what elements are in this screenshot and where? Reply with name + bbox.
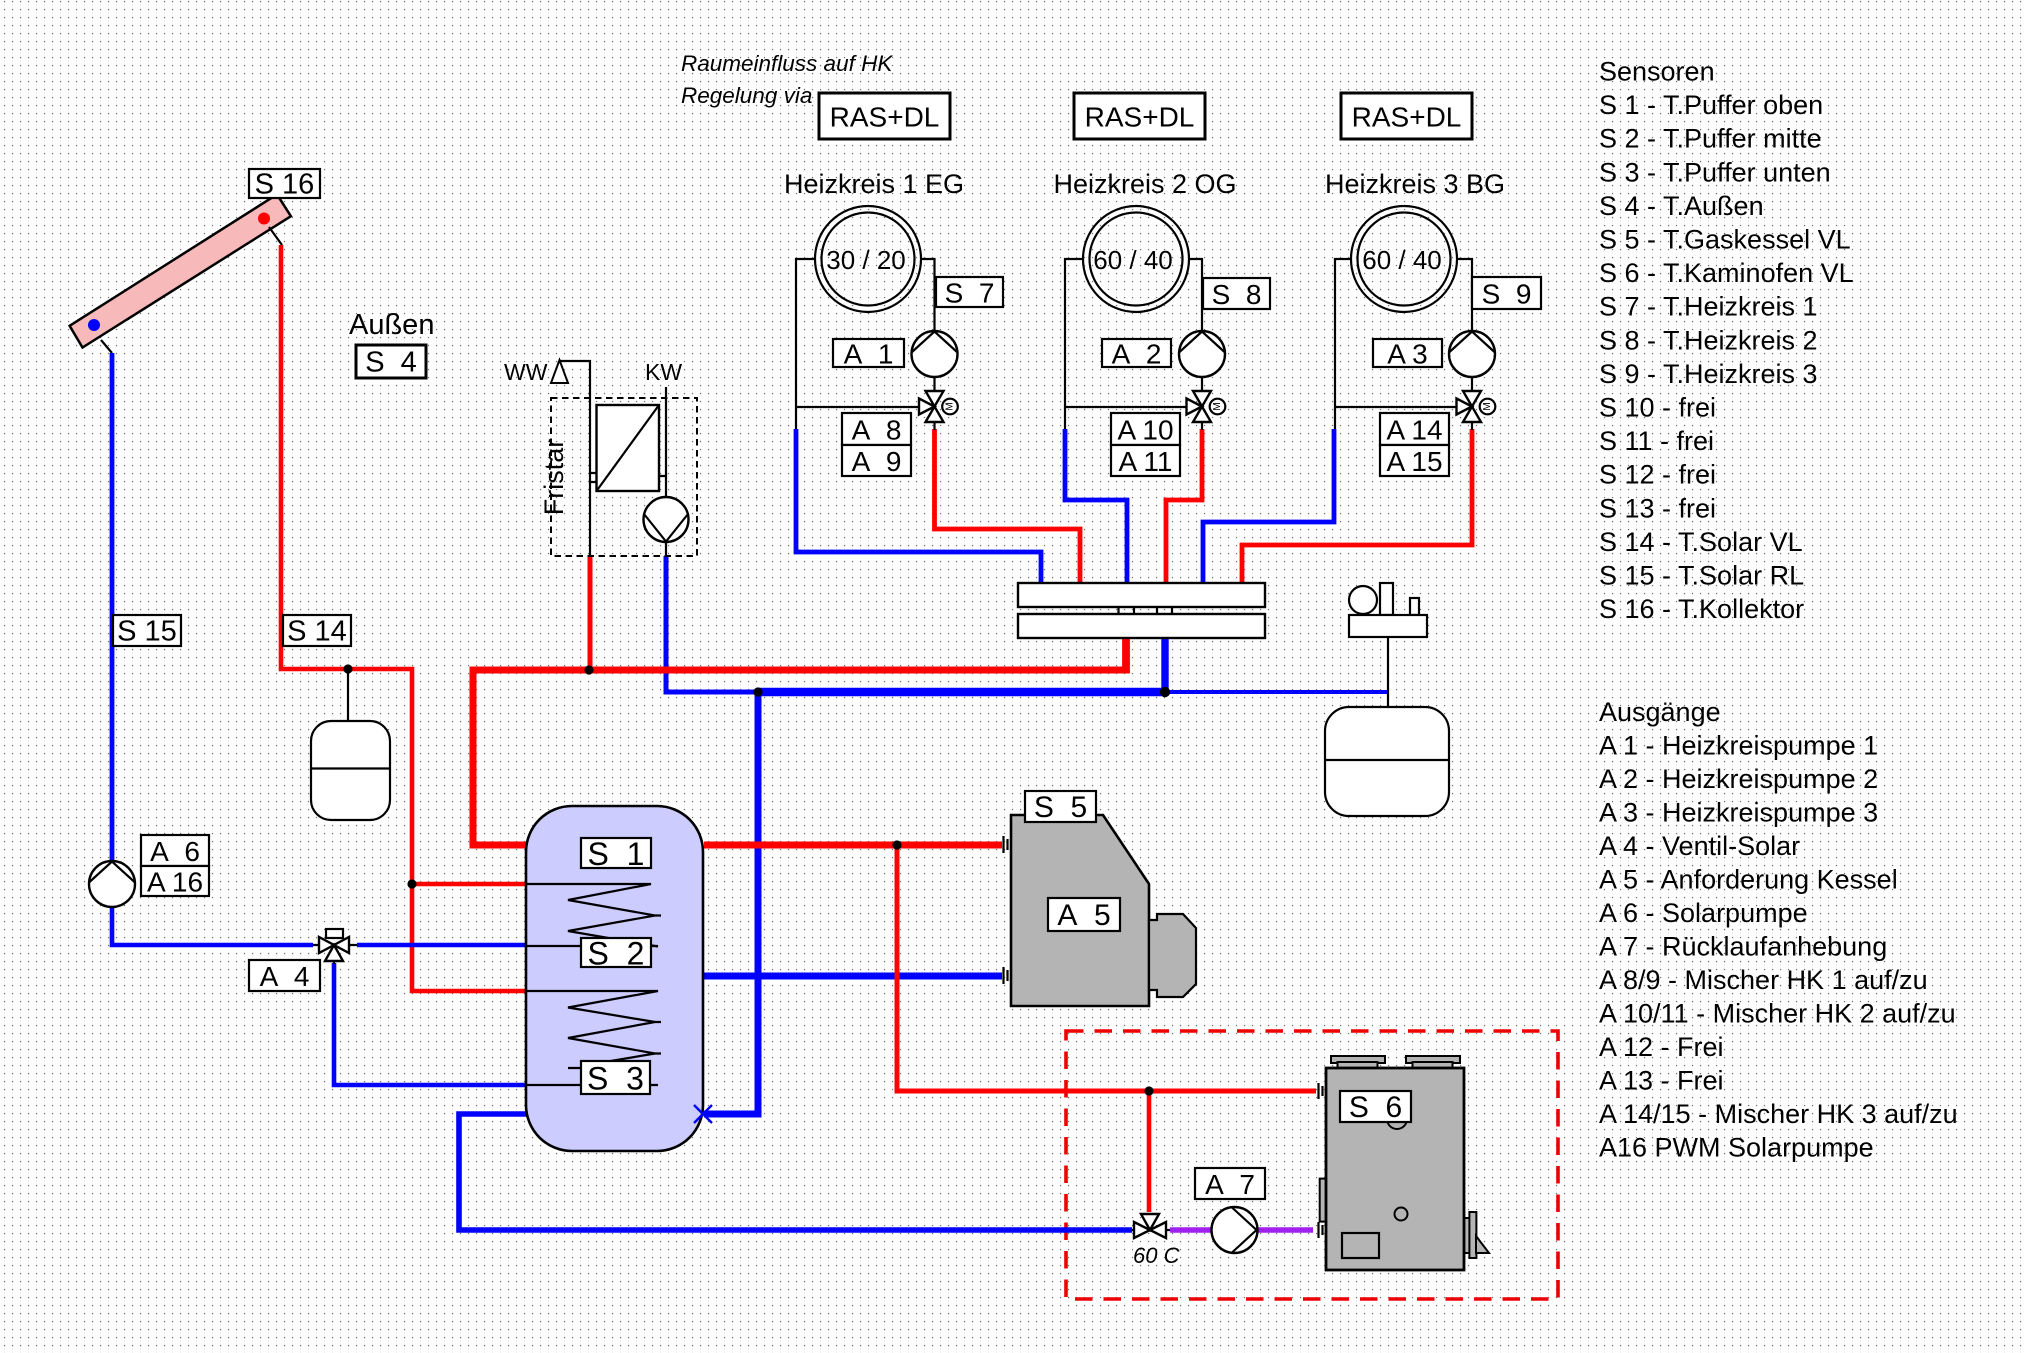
svg-text:Heizkreis 1 EG: Heizkreis 1 EG [784, 169, 964, 199]
svg-text:S 6: S 6 [1349, 1091, 1402, 1124]
svg-text:S 8: S 8 [1212, 279, 1262, 310]
svg-text:S 11 - frei: S 11 - frei [1599, 426, 1714, 456]
label box S15 [113, 615, 181, 648]
svg-text:Außen: Außen [349, 309, 434, 341]
svg-text:Ausgänge: Ausgänge [1599, 697, 1721, 727]
wire: Fristar WW red drop [588, 556, 593, 670]
label box S6 [1340, 1091, 1411, 1124]
gas boiler (Kessel) [1011, 815, 1196, 1006]
label box S14 [283, 615, 351, 648]
wire: Heizkreis 1 RL blue [796, 429, 1041, 586]
svg-text:M: M [945, 402, 956, 410]
pump Fristar [644, 497, 689, 542]
svg-text:A 10/11 - Mischer HK 2 auf/zu: A 10/11 - Mischer HK 2 auf/zu [1599, 999, 1956, 1029]
wire: Heizkreis 1 VL red [935, 429, 1081, 586]
junction dot Fristar red [584, 665, 593, 674]
Heizkreis 2 radiator [1083, 206, 1189, 312]
svg-text:A 5 - Anforderung Kessel: A 5 - Anforderung Kessel [1599, 865, 1898, 895]
svg-text:A 3: A 3 [1387, 339, 1427, 370]
svg-text:60 / 40: 60 / 40 [1093, 245, 1173, 275]
mixing valve Heizkreis (3-way with M) at x=934.5 [919, 391, 958, 422]
svg-text:A 1 - Heizkreispumpe 1: A 1 - Heizkreispumpe 1 [1599, 731, 1878, 761]
wire: Heizkreis 2 VL red [1166, 429, 1202, 586]
svg-text:M: M [1212, 402, 1223, 410]
Kaminofen dashed red enclosure [1066, 1031, 1558, 1299]
wire: boiler VL thick red [704, 842, 1002, 849]
label box S8 [1203, 278, 1270, 310]
svg-text:S 4 - T.Außen: S 4 - T.Außen [1599, 191, 1764, 221]
Heizkreis 1 radiator [815, 206, 921, 312]
pump A2 Heizkreispumpe 2 [1179, 331, 1225, 377]
label box A9 [842, 445, 911, 477]
svg-text:A 4 - Ventil-Solar: A 4 - Ventil-Solar [1599, 831, 1800, 861]
label box A1 [833, 339, 904, 370]
wire: safety group to expansion vessel [1387, 637, 1389, 707]
wire: Heizkreis 2 RL blue [1065, 429, 1127, 586]
svg-text:A 10: A 10 [1117, 415, 1173, 446]
svg-text:A 1: A 1 [844, 339, 894, 370]
mixing valve Heizkreis (3-way with M) at x=1472 [1457, 391, 1496, 422]
svg-text:S 2: S 2 [588, 936, 645, 972]
wire: collector VL stub [269, 227, 282, 245]
wire: Heizkreis 3 VL red [1242, 429, 1472, 586]
wire: solar VL (S14) red [281, 245, 527, 991]
wire: tank S3 port line [527, 1068, 658, 1085]
svg-text:S 6 - T.Kaminofen VL: S 6 - T.Kaminofen VL [1599, 258, 1854, 288]
svg-text:RAS+DL: RAS+DL [830, 102, 940, 133]
junction dot blue main [753, 687, 762, 696]
mixing valve Heizkreis (3-way with M) at x=1202 [1187, 391, 1226, 422]
svg-text:A 4: A 4 [260, 961, 310, 992]
solar collector [70, 194, 291, 347]
WW vent symbol [551, 360, 568, 383]
svg-text:A 11: A 11 [1119, 446, 1173, 477]
svg-text:S 16 - T.Kollektor: S 16 - T.Kollektor [1599, 594, 1804, 624]
blue x mark tank port [694, 1105, 712, 1123]
valve A4 Ventil-Solar [313, 929, 357, 964]
manifold (Verteiler) upper bar [1018, 583, 1265, 607]
label box S7 [936, 277, 1003, 309]
svg-text:A 7: A 7 [1205, 1169, 1255, 1200]
svg-text:30 / 20: 30 / 20 [826, 245, 906, 275]
label box A16 [141, 866, 209, 898]
svg-text:S 16: S 16 [255, 169, 315, 201]
label box A3 [1373, 339, 1442, 370]
label box A5 [1048, 898, 1120, 932]
label box S1 [581, 836, 651, 872]
wire: HK2 black right [1188, 259, 1202, 430]
flange boiler RL [1004, 967, 1008, 984]
svg-text:A 7 - Rücklaufanhebung: A 7 - Rücklaufanhebung [1599, 932, 1887, 962]
svg-text:A 14: A 14 [1386, 415, 1442, 446]
wire: tank S2 port line [527, 945, 658, 947]
svg-text:S 10 - frei: S 10 - frei [1599, 393, 1716, 423]
label box A7 [1195, 1168, 1265, 1200]
wire: solar RL (S15) blue [110, 353, 115, 862]
wire: WW line [560, 361, 598, 556]
wire: valve A4 down to tank S3 port [334, 963, 527, 1085]
safety group (manometer + valve) [1349, 583, 1427, 637]
svg-text:S 8 - T.Heizkreis 2: S 8 - T.Heizkreis 2 [1599, 325, 1818, 355]
junction dot solar vessel [343, 664, 352, 673]
junction dot solar coil branch [407, 879, 416, 888]
label box S2 [581, 936, 651, 972]
svg-text:S 4: S 4 [365, 347, 417, 379]
svg-text:RAS+DL: RAS+DL [1085, 102, 1195, 133]
svg-text:Raumeinfluss auf HK: Raumeinfluss auf HK [681, 51, 893, 76]
junction dot Kaminofen red [1144, 1086, 1153, 1095]
svg-text:A 8/9 - Mischer HK 1 auf/zu: A 8/9 - Mischer HK 1 auf/zu [1599, 965, 1928, 995]
Heizkreis 3 radiator [1351, 206, 1457, 312]
svg-text:S 7: S 7 [945, 278, 995, 309]
svg-text:Regelung via: Regelung via [681, 83, 812, 108]
svg-text:A 14/15 - Mischer HK 3 auf/zu: A 14/15 - Mischer HK 3 auf/zu [1599, 1099, 1958, 1129]
manifold lower bar [1018, 614, 1265, 638]
svg-text:A 12 - Frei: A 12 - Frei [1599, 1032, 1724, 1062]
svg-text:A 2 - Heizkreispumpe 2: A 2 - Heizkreispumpe 2 [1599, 764, 1878, 794]
wire: Heizkreis 3 RL blue [1203, 429, 1334, 586]
label box A2 [1102, 339, 1171, 370]
svg-text:A 9: A 9 [852, 446, 902, 477]
svg-text:Heizkreis 3 BG: Heizkreis 3 BG [1325, 169, 1505, 199]
svg-text:Fristar: Fristar [539, 439, 569, 516]
svg-text:S 3 - T.Puffer unten: S 3 - T.Puffer unten [1599, 157, 1831, 187]
wire: Kessel VL thick red (tank top to manifold) [473, 670, 1126, 845]
svg-text:S 12 - frei: S 12 - frei [1599, 460, 1716, 490]
svg-text:A 5: A 5 [1057, 899, 1110, 932]
wood boiler Kaminofen [1320, 1056, 1489, 1270]
svg-text:A 6: A 6 [150, 836, 200, 867]
label box S9 [1472, 277, 1541, 310]
svg-text:S 15: S 15 [117, 616, 177, 648]
label box S16 [249, 169, 320, 201]
label box RAS3 [1341, 93, 1472, 139]
label box RAS2 [1074, 93, 1205, 139]
wire: Fristar KW blue drop [666, 556, 758, 692]
coil 2 (lower heat exchanger) [527, 991, 661, 1066]
pump A3 Heizkreispumpe 3 [1449, 331, 1495, 377]
svg-text:S 14 - T.Solar VL: S 14 - T.Solar VL [1599, 527, 1803, 557]
label box A10 [1111, 413, 1180, 446]
svg-text:S 9 - T.Heizkreis 3: S 9 - T.Heizkreis 3 [1599, 359, 1818, 389]
wire: purple pump A7 to Kaminofen [1258, 1227, 1313, 1233]
svg-text:S 1 - T.Puffer oben: S 1 - T.Puffer oben [1599, 90, 1823, 120]
svg-text:60 C: 60 C [1133, 1243, 1180, 1268]
junction dot blue manifold [1160, 687, 1170, 697]
wire: HK1 black left [796, 259, 919, 429]
svg-text:S 13 - frei: S 13 - frei [1599, 493, 1716, 523]
label box S3 [581, 1061, 650, 1097]
wire: blue manifold drop [1161, 634, 1168, 692]
buffer tank (Puffer) [526, 806, 703, 1151]
output list [1599, 697, 1958, 1163]
svg-text:M: M [1482, 402, 1493, 410]
label box RAS1 [819, 93, 950, 139]
wire: thin blue to expansion vessel line [1165, 690, 1388, 694]
pump A1 Heizkreispumpe 1 [912, 331, 958, 377]
svg-text:A 13 - Frei: A 13 - Frei [1599, 1066, 1724, 1096]
label box S4 [356, 345, 426, 379]
svg-text:KW: KW [645, 359, 682, 385]
heat exchanger Fristar [597, 405, 660, 491]
flange boiler VL [1004, 836, 1008, 853]
svg-text:A 2: A 2 [1112, 339, 1162, 370]
svg-text:A 6 - Solarpumpe: A 6 - Solarpumpe [1599, 898, 1808, 928]
svg-text:S 15 - T.Solar RL: S 15 - T.Solar RL [1599, 561, 1804, 591]
wire: expansion vessel tap (solar) [347, 669, 349, 721]
wire: KW line [659, 387, 666, 556]
sensor list [1599, 57, 1854, 625]
wire: purple valve to pump A7 [1170, 1227, 1211, 1233]
wire: valve A4 to tank S2 port [357, 943, 527, 948]
label box A4 [249, 960, 320, 992]
wire: HK3 black right [1456, 259, 1472, 430]
svg-text:Sensoren: Sensoren [1599, 57, 1715, 87]
junction dot boiler red [892, 840, 901, 849]
wire: collector RL stub [101, 340, 112, 353]
svg-text:RAS+DL: RAS+DL [1352, 102, 1462, 133]
wire: red branch down to 60C valve [1147, 1091, 1152, 1212]
main expansion vessel [1325, 707, 1449, 816]
svg-text:A 16: A 16 [147, 867, 203, 898]
solar expansion vessel [311, 721, 390, 820]
label box A11 [1111, 445, 1180, 477]
label box A14 [1380, 413, 1449, 446]
flange Kaminofen RL [1319, 1222, 1323, 1238]
wire: pump A6 to valve A4 [112, 907, 313, 946]
wire: solar VL branch to upper coil [412, 882, 527, 887]
wire: thick blue main return (Fristar junction to manifold) [758, 688, 1165, 696]
svg-text:Heizkreis 2 OG: Heizkreis 2 OG [1053, 169, 1236, 199]
svg-text:S 3: S 3 [587, 1061, 644, 1097]
svg-text:S 2 - T.Puffer mitte: S 2 - T.Puffer mitte [1599, 124, 1822, 154]
flange Kaminofen VL [1319, 1083, 1323, 1099]
svg-text:S 14: S 14 [287, 616, 347, 648]
svg-text:A16 PWM Solarpumpe: A16 PWM Solarpumpe [1599, 1133, 1874, 1163]
svg-text:S 1: S 1 [588, 836, 645, 872]
manifold couplings [1119, 607, 1173, 614]
svg-text:WW: WW [504, 359, 548, 385]
pump A7 Ruecklaufanhebung [1212, 1207, 1258, 1253]
svg-text:S 7 - T.Heizkreis 1: S 7 - T.Heizkreis 1 [1599, 292, 1818, 322]
svg-text:60 / 40: 60 / 40 [1362, 245, 1442, 275]
svg-text:A 8: A 8 [852, 415, 902, 446]
wire: thick blue down to tank bottom right port [704, 692, 758, 1114]
svg-text:S 5 - T.Gaskessel VL: S 5 - T.Gaskessel VL [1599, 225, 1851, 255]
valve 60C (Ruecklaufanhebung 3-way) [1132, 1214, 1170, 1238]
wire: long blue return tank bottom to 60C valve [459, 1114, 1132, 1230]
wire: HK3 black left [1335, 259, 1457, 429]
label box S5 [1025, 791, 1096, 824]
wire: HK2 black left [1065, 259, 1187, 429]
label box A15 [1380, 445, 1449, 477]
label box A8 [842, 413, 911, 446]
wire: HK1 black right [920, 259, 935, 430]
coil 1 (upper heat exchanger) [527, 884, 661, 947]
svg-text:A 3 - Heizkreispumpe 3: A 3 - Heizkreispumpe 3 [1599, 798, 1878, 828]
Fristar dashed enclosure [551, 398, 697, 556]
svg-text:A 15: A 15 [1386, 446, 1442, 477]
label box A6 [141, 835, 209, 867]
wire: boiler RL thick blue [704, 973, 1002, 980]
svg-text:S 5: S 5 [1034, 791, 1087, 824]
pump A6 Solarpumpe [89, 861, 135, 907]
wire: red to Kaminofen (Ruecklaufanhebung) [897, 845, 1316, 1091]
svg-text:S 9: S 9 [1482, 279, 1532, 310]
